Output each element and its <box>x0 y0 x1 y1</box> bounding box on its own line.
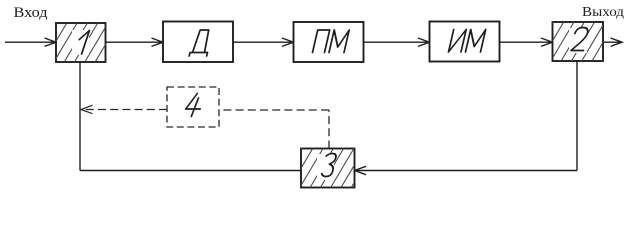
wire ПМ to ИМ <box>364 38 430 46</box>
wire block2 down <box>576 61 578 171</box>
block ИМ <box>430 22 500 62</box>
svg-text:Вход: Вход <box>14 5 48 21</box>
wire dashed from block 3 top <box>219 110 329 149</box>
label 3 <box>321 154 337 177</box>
wire 1 to Д <box>106 38 164 46</box>
wire dashed arrow into feedback riser <box>81 105 167 113</box>
label ИМ <box>449 30 486 53</box>
block 1 <box>33 22 130 63</box>
label ПМ <box>313 30 350 53</box>
wire feedback up into block 1 <box>79 62 81 171</box>
block 3 <box>279 148 376 189</box>
block 2 <box>530 21 624 62</box>
label 1 <box>76 31 89 55</box>
label Д <box>189 30 213 56</box>
label 4 <box>184 94 204 117</box>
wire feedback left segment from block 3 <box>80 170 301 172</box>
wire input <box>5 38 56 46</box>
wire feedback right segment into block 3 <box>355 166 578 174</box>
block 4 (dashed) <box>167 87 219 127</box>
wire output <box>603 38 622 46</box>
label 2 <box>571 28 589 51</box>
block Д <box>163 22 233 63</box>
block ПМ <box>294 22 364 62</box>
svg-text:Выход: Выход <box>582 5 624 20</box>
wire ИМ to 2 <box>500 38 553 46</box>
wire Д to ПМ <box>233 38 294 46</box>
